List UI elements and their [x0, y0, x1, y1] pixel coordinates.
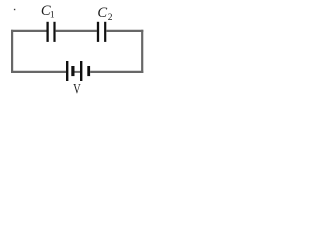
wire: top-middle segment [56, 30, 97, 32]
wire: top-right segment [106, 30, 143, 32]
svg-text:1: 1 [50, 10, 55, 20]
wire: bottom-right segment [90, 71, 143, 73]
wire: bottom-left segment [11, 71, 66, 73]
battery long plate 2 [80, 61, 82, 81]
capacitor C2 [98, 22, 105, 42]
battery long plate 1 [66, 61, 68, 81]
svg-text:V: V [73, 82, 81, 98]
wire: right vertical [141, 30, 143, 73]
battery inter-cell wire [75, 71, 81, 73]
wire: left vertical [11, 30, 13, 73]
battery short plate 2 [87, 66, 90, 76]
capacitor C1 [48, 22, 55, 42]
battery short plate 1 [71, 66, 74, 76]
svg-text:2: 2 [108, 13, 113, 23]
wire: top-left segment [11, 30, 47, 32]
stray dot [14, 9, 15, 10]
battery V [67, 61, 89, 81]
svg-text:C: C [97, 5, 107, 21]
